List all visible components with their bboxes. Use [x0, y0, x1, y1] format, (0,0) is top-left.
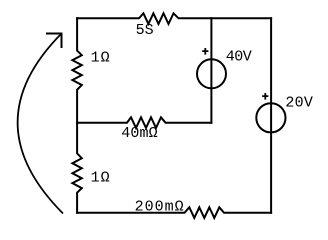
svg-text:5S: 5S — [136, 22, 154, 39]
svg-text:20V: 20V — [285, 94, 313, 111]
svg-text:1Ω: 1Ω — [91, 50, 110, 67]
svg-text:200mΩ: 200mΩ — [135, 198, 184, 215]
svg-text:40mΩ: 40mΩ — [121, 125, 158, 142]
svg-text:40V: 40V — [226, 49, 252, 66]
svg-text:1Ω: 1Ω — [91, 170, 110, 187]
